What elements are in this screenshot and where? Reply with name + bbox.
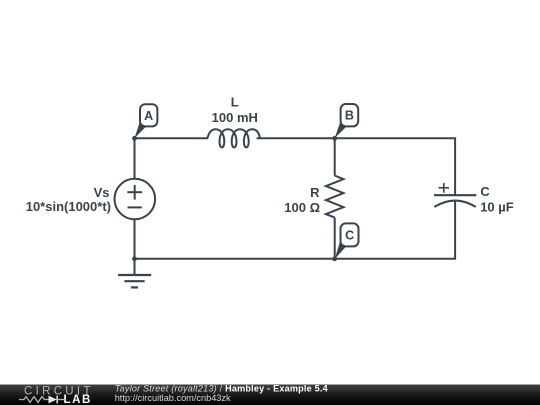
- svg-text:R: R: [310, 185, 320, 200]
- node A flag: [135, 104, 158, 138]
- node C flag: [335, 223, 359, 259]
- junction dot node A: [132, 136, 137, 141]
- svg-text:C: C: [480, 184, 490, 199]
- junction dot node B: [332, 136, 337, 141]
- svg-text:B: B: [345, 109, 354, 123]
- svg-text:10*sin(1000*t): 10*sin(1000*t): [26, 199, 111, 214]
- wire: node A down to source top: [134, 138, 136, 179]
- footer bar: [0, 385, 540, 405]
- wire: node B down to resistor top: [334, 138, 336, 175]
- svg-text:100 Ω: 100 Ω: [284, 200, 320, 215]
- junction dot node C: [332, 256, 337, 261]
- svg-text:LAB: LAB: [64, 394, 92, 405]
- svg-text:A: A: [144, 109, 153, 123]
- wire: node A to inductor left lead: [135, 137, 209, 139]
- ground: [118, 259, 151, 288]
- inductor L1 (coil): [207, 129, 260, 147]
- wire: source bottom to ground junction: [134, 219, 136, 258]
- logo diode: [49, 396, 65, 404]
- wire: resistor bottom to node C: [334, 218, 336, 259]
- svg-text:Taylor Street (royalt213) / Ha: Taylor Street (royalt213) / Hambley - Ex…: [115, 384, 329, 394]
- wire: capacitor bottom down to corner and bottom rail: [135, 201, 456, 259]
- node B flag: [335, 104, 359, 138]
- svg-text:http://circuitlab.com/cnb43zk: http://circuitlab.com/cnb43zk: [115, 393, 231, 403]
- svg-text:L: L: [231, 95, 239, 110]
- voltage source VS1: [115, 179, 156, 220]
- wire: node B to top-right corner and down to capacitor top: [335, 138, 455, 195]
- svg-text:Vs: Vs: [94, 185, 110, 200]
- capacitor C1 (polarized plates): [434, 183, 476, 207]
- svg-text:C: C: [345, 229, 354, 243]
- logo resistor zigzag: [19, 397, 49, 403]
- junction dot ground node: [132, 256, 137, 261]
- svg-text:10 µF: 10 µF: [480, 200, 514, 215]
- svg-text:100 mH: 100 mH: [212, 110, 258, 125]
- wire: inductor right lead to node B: [257, 137, 335, 139]
- resistor R1 (zigzag): [326, 176, 344, 218]
